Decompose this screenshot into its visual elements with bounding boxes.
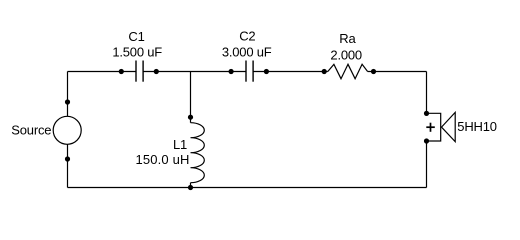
svg-text:1.500 uF: 1.500 uF: [112, 45, 162, 60]
svg-text:C2: C2: [239, 29, 255, 44]
wire bottom rail: [68, 187, 427, 189]
svg-text:3.000 uF: 3.000 uF: [222, 44, 272, 59]
capacitor C1 plates: [136, 61, 143, 82]
svg-text:C1: C1: [128, 29, 144, 44]
wire right vertical: speaker to bottom corner: [426, 141, 428, 188]
wire L1 bottom stub: [190, 183, 192, 188]
wire top rail: C2 right plate to Ra: [253, 71, 327, 73]
svg-text:5HH10: 5HH10: [457, 119, 496, 134]
source V1 circle: [53, 116, 81, 144]
node dot Ra right terminal: [371, 69, 376, 74]
node dot L1 top terminal: [188, 115, 193, 120]
speaker cone triangle: [442, 112, 456, 141]
svg-text:Ra: Ra: [339, 31, 356, 46]
svg-text:Source: Source: [11, 122, 51, 137]
wire right vertical: top corner to speaker: [426, 72, 428, 114]
node dot speaker bottom terminal: [424, 138, 429, 143]
wire left vertical: source to bottom corner: [67, 144, 69, 187]
node dot speaker top terminal: [424, 111, 429, 116]
node dot Ra left terminal: [322, 69, 327, 74]
node dot C1 left terminal: [119, 69, 124, 74]
node dot C2 right terminal: [264, 69, 269, 74]
capacitor C2 plates: [246, 61, 253, 82]
node dot C1 right terminal: [154, 69, 159, 74]
svg-text:150.0 uH: 150.0 uH: [136, 152, 190, 167]
node dot source top terminal: [65, 99, 70, 104]
wire top rail: source to C1 left plate: [68, 71, 136, 73]
wire left vertical: top corner to source: [67, 72, 69, 117]
node dot L1 bottom junction: [188, 185, 193, 190]
speaker plus polarity mark: [426, 123, 435, 132]
node dot C2 left terminal: [229, 69, 234, 74]
speaker box (open left side): [427, 113, 441, 141]
svg-text:L1: L1: [173, 137, 187, 152]
wire top rail: C1 right plate to C2 left plate: [143, 71, 245, 73]
resistor Ra zigzag: [328, 64, 368, 78]
inductor L1 coil: [191, 123, 205, 183]
svg-text:2.000: 2.000: [330, 48, 362, 63]
node dot source bottom terminal: [65, 156, 70, 161]
wire L1 branch from top rail: [190, 72, 192, 123]
wire top rail: Ra to right corner: [368, 71, 427, 73]
